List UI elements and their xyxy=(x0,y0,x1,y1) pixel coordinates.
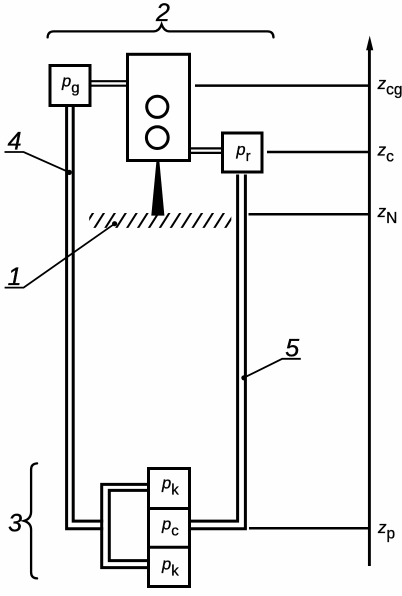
svg-text:2: 2 xyxy=(155,0,170,27)
cone nozzle xyxy=(151,162,164,216)
wire pg to vessel (double line) xyxy=(92,81,128,86)
brace of group 3 xyxy=(24,463,37,578)
pipe 4 left (double line) xyxy=(67,107,104,529)
leader line 4 xyxy=(5,152,70,172)
axis vertical xyxy=(368,47,371,566)
level line z_N xyxy=(249,213,370,216)
float circle 2 xyxy=(146,127,168,149)
axis arrowhead xyxy=(366,36,373,51)
gauge box pr xyxy=(223,133,263,172)
gauge box pg xyxy=(50,66,90,106)
gauge stack outline (group 3) xyxy=(149,469,190,587)
vessel box U (carburetor) xyxy=(128,54,190,160)
wire vessel to pr (double line) xyxy=(191,148,223,153)
stack divider upper xyxy=(149,507,190,510)
leader line 5 xyxy=(244,359,301,378)
level line z_cg xyxy=(195,84,369,87)
float circle 1 xyxy=(147,96,168,117)
leader dot 4 on pipe xyxy=(67,170,72,175)
leader dot 1 on ground xyxy=(112,221,117,226)
svg-text:3: 3 xyxy=(8,510,22,538)
leader line 1 xyxy=(5,224,115,288)
level line z_c xyxy=(267,151,369,154)
brace over group 2 xyxy=(48,24,274,37)
leader dot 5 on pipe xyxy=(241,375,246,380)
stack divider lower xyxy=(149,546,190,549)
branch pipe to pk boxes (double line) xyxy=(102,484,149,567)
pipe 5 right (double line) xyxy=(190,175,245,529)
level line z_p xyxy=(249,527,369,530)
